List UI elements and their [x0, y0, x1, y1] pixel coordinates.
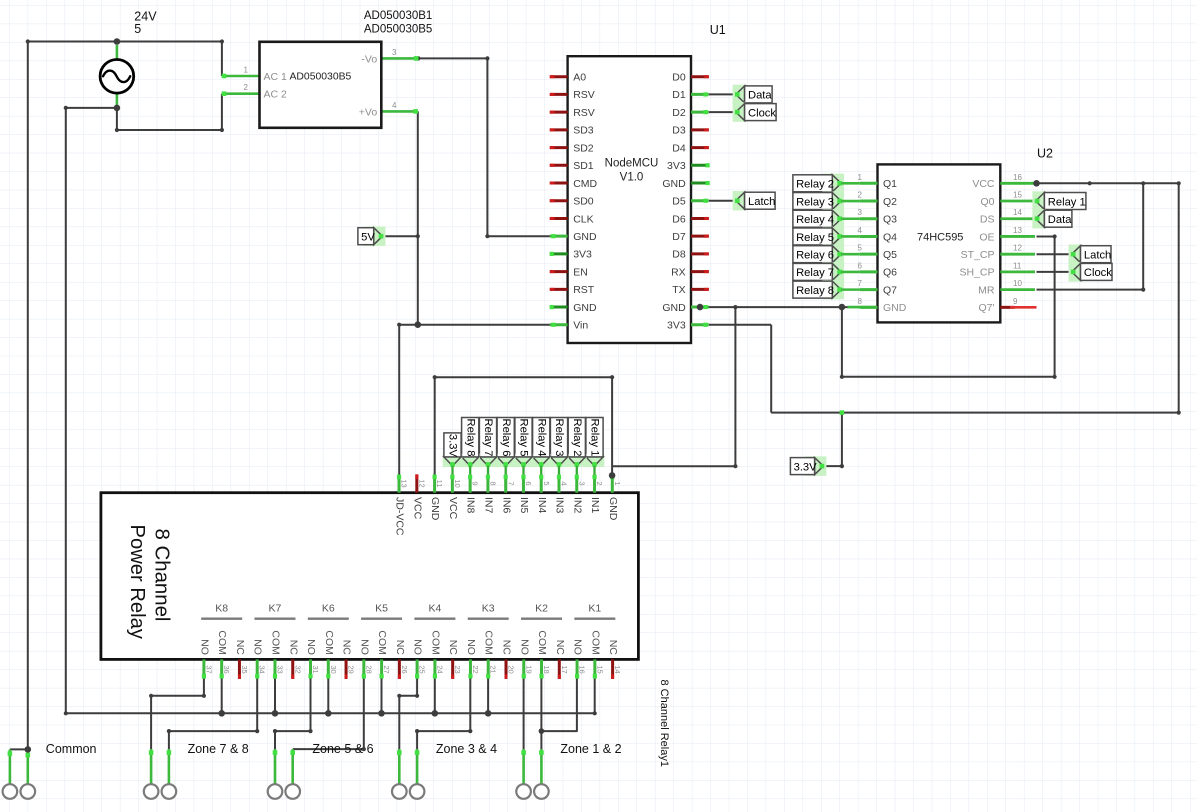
junction dot relay GND1 [609, 472, 616, 479]
svg-text:AC 2: AC 2 [264, 89, 288, 101]
relay top pin VCC number 12 [411, 474, 426, 519]
U2 right pin Q7' number 9 [978, 297, 1036, 314]
svg-text:26: 26 [400, 665, 409, 673]
net label Relay 1 (U2 Q0) [1032, 191, 1086, 210]
bendpoint green 3.3V joins 3V3 net [840, 410, 845, 415]
relay bottom pin K3 COM number 21 [483, 630, 498, 679]
wire green zone terminal 5 [397, 749, 402, 784]
svg-text:25: 25 [418, 665, 427, 673]
relay group label K2 [521, 603, 562, 619]
wire -Vo to vertical [416, 56, 489, 60]
U1 right pin D2 row 3 [672, 107, 709, 119]
wire left vertical x65 to common bus [65, 108, 67, 713]
U2 left pin Q7 number 7 [858, 279, 898, 296]
net label Latch (U1 D5) [733, 191, 776, 210]
svg-text:2: 2 [244, 83, 249, 92]
svg-text:SD0: SD0 [573, 196, 594, 208]
svg-text:4: 4 [858, 226, 863, 235]
svg-text:Data: Data [1048, 214, 1072, 226]
wire COM K1 to bus [593, 679, 597, 716]
relay top pin IN3 number 4 [554, 474, 569, 513]
wire 3V3 right vertical x1178 [1177, 181, 1181, 415]
U1 left pin Vin row 15 [550, 320, 589, 332]
svg-text:3: 3 [392, 48, 397, 57]
svg-text:10: 10 [1013, 279, 1022, 288]
relay bottom pin K3 NO number 22 [465, 639, 480, 679]
svg-text:NC: NC [447, 640, 459, 656]
svg-text:D3: D3 [672, 125, 686, 137]
svg-text:IN3: IN3 [554, 497, 566, 514]
svg-text:GND: GND [573, 302, 597, 314]
junction dot common bus x488 [485, 710, 492, 717]
relay bottom pin K4 NO number 25 [412, 639, 427, 679]
svg-text:Zone 1 & 2: Zone 1 & 2 [560, 742, 621, 756]
wire green zone terminal 4 [290, 749, 295, 784]
svg-text:Clock: Clock [1084, 267, 1112, 279]
svg-text:CLK: CLK [573, 213, 593, 225]
svg-text:10: 10 [453, 479, 462, 487]
svg-text:13: 13 [1013, 226, 1022, 235]
svg-text:NC: NC [234, 640, 246, 656]
svg-text:D4: D4 [672, 142, 686, 154]
terminal J6 [285, 784, 300, 799]
svg-text:ST_CP: ST_CP [961, 249, 995, 261]
svg-text:JD-VCC: JD-VCC [394, 497, 406, 536]
svg-text:AC 1: AC 1 [264, 71, 288, 83]
wire green Common drop 2 [26, 752, 31, 784]
svg-text:NC: NC [394, 640, 406, 656]
wire 3V3 vertical x771 [770, 325, 772, 413]
svg-text:Q4: Q4 [883, 231, 897, 243]
wire NO K2 drop [523, 679, 525, 750]
svg-text:D1: D1 [672, 89, 686, 101]
svg-text:5: 5 [134, 22, 141, 36]
U1 right pin D6 row 9 [672, 213, 709, 225]
wire green zone terminal 3 [273, 749, 278, 784]
svg-text:Latch: Latch [1084, 250, 1111, 262]
svg-text:K7: K7 [269, 603, 282, 615]
svg-text:SD3: SD3 [573, 125, 594, 137]
svg-text:COM: COM [429, 630, 441, 655]
U2 left pin Q3 number 3 [858, 208, 898, 225]
terminal J5 [268, 784, 283, 799]
svg-text:NO: NO [412, 639, 424, 655]
svg-text:31: 31 [311, 665, 320, 673]
wire NO K8 to zone terminal [149, 679, 206, 750]
wire green zone terminal 7 [521, 749, 526, 784]
U2 left pin Q1 number 1 [858, 173, 898, 190]
svg-text:NC: NC [341, 640, 353, 656]
svg-text:D8: D8 [672, 249, 686, 261]
wire U2 GND junction down [840, 307, 844, 379]
AD050030B5 title [364, 10, 432, 36]
relay top pin IN6 number 7 [500, 474, 515, 513]
svg-text:19: 19 [524, 665, 533, 673]
text Zone 1 and 2 [560, 742, 621, 756]
svg-text:U1: U1 [710, 23, 726, 37]
relay group label K3 [468, 603, 509, 619]
net label 3.3V (near U2) [790, 456, 826, 475]
junction dot AC bottom [114, 105, 121, 112]
svg-text:11: 11 [1013, 261, 1022, 270]
svg-text:U2: U2 [1037, 147, 1053, 161]
svg-text:K4: K4 [428, 603, 441, 615]
svg-text:+Vo: +Vo [359, 106, 378, 118]
svg-text:VCC: VCC [972, 178, 995, 190]
wire NO K4 to zone terminal [397, 679, 419, 750]
wire MR horizontal [1037, 289, 1144, 291]
junction dot Vin 5V [415, 321, 422, 328]
svg-text:NO: NO [572, 639, 584, 655]
wire green -Vo [381, 56, 418, 61]
wire relay GND1 vertical [611, 377, 613, 476]
U1 right pin TX row 13 [672, 284, 709, 296]
net label Relay 1 (relay IN1) [585, 418, 605, 475]
svg-text:COM: COM [376, 630, 388, 655]
wire VCC horizontal to right [1037, 181, 1179, 185]
svg-text:GND: GND [883, 302, 907, 314]
wire vertical -Vo net down to GND row [485, 58, 489, 238]
wire AC source bottom to left [64, 106, 117, 110]
wire left vertical to Common junction [27, 42, 29, 750]
net label Data (U2 DS) [1032, 209, 1072, 228]
svg-text:1: 1 [858, 173, 863, 182]
svg-text:Relay 4: Relay 4 [535, 419, 547, 457]
svg-text:GND: GND [662, 302, 686, 314]
svg-text:RX: RX [671, 266, 686, 278]
svg-text:Q1: Q1 [883, 178, 897, 190]
svg-text:28: 28 [364, 665, 373, 673]
svg-text:NC: NC [500, 640, 512, 656]
relay bottom pin K3 NC number 20 [500, 640, 515, 679]
terminal J8 [410, 784, 425, 799]
svg-text:CMD: CMD [573, 178, 597, 190]
svg-text:8 Channel Relay1: 8 Channel Relay1 [658, 680, 670, 767]
wire 3.3V label vertical up [841, 413, 843, 467]
wire COM K4 drop [434, 679, 436, 714]
svg-text:D5: D5 [672, 196, 686, 208]
U2 right pin ST_CP number 12 [961, 244, 1035, 261]
junction dot AC top [114, 38, 121, 45]
svg-text:5: 5 [542, 481, 551, 485]
wire green Common drop 1 [8, 749, 13, 784]
wire green AC source bottom [116, 93, 119, 108]
svg-text:GND: GND [573, 231, 597, 243]
svg-text:Relay 6: Relay 6 [796, 249, 834, 261]
svg-text:Relay 2: Relay 2 [796, 179, 834, 191]
power module AD050030B5 box [260, 42, 382, 128]
svg-text:SD2: SD2 [573, 142, 594, 154]
U1 left pin SD3 row 4 [550, 125, 594, 137]
svg-text:16: 16 [578, 665, 587, 673]
wire ST_CP to Latch label [1037, 253, 1072, 255]
U1 right pin D4 row 5 [672, 142, 709, 154]
wire green +Vo [381, 109, 418, 114]
net label Relay 5 (relay IN5) [514, 418, 534, 475]
svg-text:NO: NO [518, 639, 530, 655]
net label Relay 3 (relay IN3) [549, 418, 569, 475]
svg-text:AD050030B1: AD050030B1 [364, 10, 432, 22]
mcu U1 NodeMCU box [568, 56, 691, 343]
U1 left pin EN row 12 [550, 266, 588, 278]
U1 right pin D8 row 11 [672, 249, 709, 261]
svg-text:IN6: IN6 [500, 497, 512, 514]
svg-text:13: 13 [400, 479, 409, 487]
svg-text:EN: EN [573, 266, 588, 278]
svg-text:VCC: VCC [447, 497, 459, 520]
U1 left pin SD2 row 5 [550, 142, 594, 154]
svg-text:K6: K6 [322, 603, 335, 615]
svg-text:20: 20 [506, 665, 515, 673]
svg-text:11: 11 [435, 480, 444, 488]
wire COM K7 drop [274, 679, 276, 714]
wire COM K8 drop [221, 679, 223, 714]
svg-text:SD1: SD1 [573, 160, 594, 172]
pin number 2 [244, 83, 249, 92]
svg-text:7: 7 [506, 481, 515, 485]
svg-text:8: 8 [858, 297, 863, 306]
svg-text:Clock: Clock [748, 107, 776, 119]
svg-text:5: 5 [858, 244, 863, 253]
relay group label K4 [414, 603, 455, 619]
svg-text:IN2: IN2 [571, 497, 583, 514]
U2 right pin OE number 13 [979, 226, 1035, 243]
U1 left pin RSV row 2 [550, 89, 595, 101]
svg-text:K5: K5 [375, 603, 388, 615]
svg-text:1: 1 [613, 481, 622, 485]
wire NO K3 to zone terminal [415, 679, 472, 750]
U2 right pin VCC number 16 [972, 173, 1035, 190]
relay bottom pin K6 NO number 31 [305, 639, 320, 679]
svg-text:NO: NO [198, 639, 210, 655]
svg-text:IN4: IN4 [536, 497, 548, 514]
svg-text:1: 1 [244, 66, 249, 75]
svg-text:D6: D6 [672, 213, 686, 225]
svg-text:17: 17 [560, 665, 569, 673]
svg-text:16: 16 [1013, 173, 1022, 182]
svg-text:RST: RST [573, 284, 595, 296]
relay bottom pin K8 NC number 35 [234, 640, 249, 679]
wire green zone terminal 6 [415, 749, 420, 784]
wire D2 to Clock label [709, 111, 736, 113]
svg-text:9: 9 [1013, 297, 1018, 306]
svg-text:IN8: IN8 [465, 497, 477, 514]
svg-text:33: 33 [275, 665, 284, 673]
wire green zone terminal 8 [539, 749, 544, 784]
U1 left pin SD1 row 6 [550, 160, 594, 172]
U1 left pin RSV row 3 [550, 107, 595, 119]
svg-text:2: 2 [858, 191, 863, 200]
wire COM K6 drop [327, 679, 329, 714]
relay board title [126, 525, 173, 640]
wire NO K6 to zone terminal [273, 679, 313, 750]
wire NO K7 to zone terminal [167, 679, 260, 750]
svg-text:TX: TX [672, 284, 685, 296]
svg-text:14: 14 [613, 665, 622, 673]
junction dot U2 VCC [1033, 180, 1040, 187]
svg-text:Zone 5 & 6: Zone 5 & 6 [312, 742, 373, 756]
terminal J10 [534, 784, 549, 799]
shift register U2 74HC595 box [878, 164, 1001, 322]
svg-text:24: 24 [435, 665, 444, 673]
U2 left pin Q6 number 6 [858, 261, 898, 278]
junction dot common bus x381 [378, 710, 385, 717]
junction dot U1 GND right [697, 304, 704, 311]
wire relay GND11 up [433, 375, 437, 476]
svg-text:NC: NC [554, 640, 566, 656]
svg-text:27: 27 [382, 665, 391, 673]
svg-text:K3: K3 [482, 603, 495, 615]
svg-text:14: 14 [1013, 208, 1022, 217]
net label Relay 8 (U2 Q7) [793, 280, 860, 299]
svg-text:3.3V: 3.3V [447, 434, 459, 458]
net label Relay 5 (U2 Q4) [793, 227, 860, 246]
net label Data (U1 D1) [733, 85, 773, 104]
wire relay GND horizontal y377 [435, 375, 615, 379]
svg-text:Relay 1: Relay 1 [1048, 196, 1086, 208]
junction dot common bus x434 [432, 710, 439, 717]
relay bottom pin K4 NC number 23 [447, 640, 462, 679]
svg-text:15: 15 [595, 665, 604, 673]
svg-text:D0: D0 [672, 72, 686, 84]
wire green AC1 [222, 74, 260, 79]
wire COM K5 drop [381, 679, 383, 714]
wire GND horizontal y466 [612, 464, 737, 468]
svg-text:21: 21 [489, 665, 498, 673]
relay group label K6 [308, 603, 349, 619]
net label Relay 4 (U2 Q3) [793, 209, 860, 228]
AD050030B5 box label [289, 71, 351, 82]
relay top pin IN2 number 3 [571, 474, 586, 513]
svg-text:22: 22 [471, 665, 480, 673]
net label Relay 6 (U2 Q5) [793, 244, 860, 263]
svg-text:COM: COM [536, 630, 548, 655]
svg-text:Relay 2: Relay 2 [571, 419, 583, 457]
wire NO K1 to zone terminal [541, 679, 577, 732]
svg-text:DS: DS [980, 214, 995, 226]
svg-text:4: 4 [392, 101, 397, 110]
text Zone 3 and 4 [436, 742, 497, 756]
text Common [46, 742, 97, 756]
terminal J2 [21, 784, 36, 799]
svg-text:5V: 5V [361, 232, 375, 244]
terminal J1 [3, 784, 18, 799]
svg-text:Zone 3 & 4: Zone 3 & 4 [436, 742, 497, 756]
U1 right pin RX row 12 [671, 266, 709, 278]
svg-text:Relay 3: Relay 3 [796, 196, 834, 208]
wire 5V label to +Vo vertical [382, 234, 420, 238]
svg-text:NO: NO [465, 639, 477, 655]
svg-text:D7: D7 [672, 231, 686, 243]
pin number 4 [392, 101, 397, 110]
net label Relay 6 (relay IN6) [496, 418, 516, 475]
wire Vin junction to U1 Vin pin [418, 324, 550, 326]
net label 5V [358, 227, 386, 246]
U1 right pin 3V3 row 6 [667, 160, 710, 172]
svg-text:Q7: Q7 [883, 284, 897, 296]
U1 right pin GND row 7 [662, 178, 709, 190]
relay group label K1 [574, 603, 615, 619]
svg-text:36: 36 [222, 665, 231, 673]
svg-text:SH_CP: SH_CP [959, 267, 994, 279]
relay top pin GND number 1 [607, 474, 622, 520]
relay group label K7 [254, 603, 295, 619]
U2 title 74HC595 [917, 231, 963, 243]
U2 right pin DS number 14 [980, 208, 1035, 225]
pin number 1 [244, 66, 249, 75]
U1 left pin 3V3 row 11 [550, 249, 592, 261]
wire green AC source top [116, 45, 119, 60]
relay board side label [658, 680, 670, 767]
svg-text:Vin: Vin [573, 320, 588, 332]
svg-text:GND: GND [607, 497, 619, 521]
svg-text:Relay 1: Relay 1 [589, 419, 601, 457]
svg-text:4: 4 [560, 481, 569, 485]
relay top pin IN8 number 9 [465, 474, 480, 513]
svg-text:AD050030B5: AD050030B5 [289, 71, 351, 82]
relay bottom pin K8 COM number 36 [216, 630, 231, 679]
svg-text:8 Channel: 8 Channel [151, 529, 173, 622]
U1 right pin D5 row 8 [672, 196, 709, 208]
relay bottom pin K1 COM number 15 [589, 630, 604, 679]
wire D1 to Data label [709, 93, 736, 95]
svg-text:29: 29 [347, 665, 356, 673]
net label Clock (U1 D2) [733, 102, 777, 121]
relay bottom pin K5 NC number 26 [394, 640, 409, 679]
net label 3.3V (relay VCC) [443, 433, 463, 475]
pin +Vo label [359, 106, 378, 118]
svg-text:NO: NO [358, 639, 370, 655]
relay top pin VCC number 10 [447, 474, 462, 519]
svg-text:K8: K8 [215, 603, 228, 615]
net label Relay 7 (relay IN7) [478, 418, 498, 475]
U1 left pin CMD row 7 [550, 178, 598, 190]
wire OE horizontal [1037, 236, 1055, 238]
wire +Vo vertical down to Vin junction [417, 111, 419, 324]
terminal J4 [162, 784, 177, 799]
svg-text:9: 9 [471, 481, 480, 485]
svg-text:7: 7 [858, 279, 863, 288]
net label Relay 3 (U2 Q2) [793, 191, 860, 210]
svg-text:K2: K2 [535, 603, 548, 615]
wire MR vertical [1141, 183, 1145, 291]
svg-text:35: 35 [240, 665, 249, 673]
relay bottom pin K4 COM number 24 [429, 630, 444, 679]
net label Relay 2 (U2 Q1) [793, 174, 860, 193]
svg-text:Relay 8: Relay 8 [464, 419, 476, 457]
terminal J3 [144, 784, 159, 799]
relay bottom pin K7 NC number 32 [287, 640, 302, 679]
U1 left pin GND row 10 [550, 231, 597, 243]
net label Relay 4 (relay IN4) [531, 418, 551, 475]
junction dot common bus x328 [325, 710, 332, 717]
svg-text:32: 32 [293, 665, 302, 673]
relay group label K8 [201, 603, 242, 619]
net label Relay 2 (relay IN2) [567, 418, 587, 475]
net label Relay 8 (relay IN8) [460, 418, 480, 475]
U1 left pin SD0 row 8 [550, 196, 594, 208]
svg-text:Q2: Q2 [883, 196, 897, 208]
U1 left pin A0 row 1 [550, 72, 586, 84]
relay bottom pin K2 NC number 17 [554, 640, 569, 679]
relay bottom pin K6 NC number 29 [341, 640, 356, 679]
wire GND vertical x735 [733, 305, 737, 466]
svg-text:Zone 7 & 8: Zone 7 & 8 [188, 742, 249, 756]
terminal J7 [392, 784, 407, 799]
wire 5V net down to relay JD-VCC [398, 325, 400, 476]
text Zone 7 and 8 [188, 742, 249, 756]
U2 left pin GND number 8 [858, 297, 907, 314]
